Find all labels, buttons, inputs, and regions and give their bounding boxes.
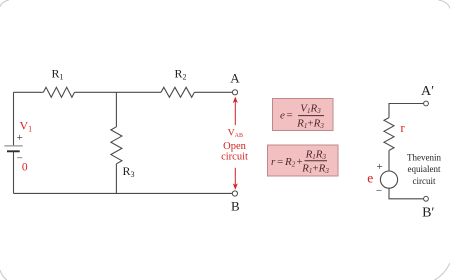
- wire left: battery to bottom: [13, 152, 15, 194]
- svg-text:=: =: [287, 110, 293, 122]
- svg-text:R1: R1: [52, 67, 64, 82]
- annotation VAB arrow up: [233, 97, 238, 103]
- svg-text:A: A: [230, 71, 240, 86]
- equation box e: [273, 99, 334, 131]
- wire top: R2 to node A: [194, 91, 232, 93]
- svg-text:A′: A′: [421, 84, 434, 99]
- battery V1 short plate: [7, 150, 20, 152]
- resistor R1: [43, 87, 74, 97]
- svg-text:e: e: [280, 110, 285, 122]
- svg-text:Open: Open: [223, 141, 246, 152]
- wire thevenin top: [389, 104, 424, 118]
- svg-text:+: +: [376, 161, 382, 173]
- svg-text:B′: B′: [422, 205, 434, 220]
- annotation VAB arrow down: [234, 168, 236, 185]
- node B' terminal: [424, 196, 429, 201]
- svg-text:−: −: [376, 185, 382, 197]
- svg-text:+: +: [17, 132, 23, 144]
- svg-text:R1+R3: R1+R3: [301, 163, 329, 176]
- svg-text:circuit: circuit: [413, 176, 436, 186]
- resistor r: [384, 118, 394, 151]
- svg-text:e: e: [367, 171, 373, 186]
- wire top: R1 to R2: [75, 91, 162, 93]
- wire left: top to battery: [13, 92, 15, 145]
- battery V1 long plate: [4, 145, 22, 147]
- source e circle: [380, 171, 397, 188]
- svg-text:equialent: equialent: [408, 164, 441, 174]
- wire top: battery to R1: [14, 91, 44, 93]
- svg-text:r: r: [400, 120, 405, 135]
- wire thevenin bottom: [389, 188, 424, 199]
- wire bottom: [14, 192, 233, 194]
- resistor R3: [111, 127, 122, 164]
- resistor R2: [161, 87, 194, 97]
- svg-text:=: =: [277, 156, 283, 168]
- svg-text:VAB: VAB: [228, 128, 243, 139]
- svg-text:0: 0: [22, 161, 28, 173]
- wire middle junction to R3: [115, 92, 117, 127]
- node A' terminal: [424, 101, 429, 106]
- node B terminal: [232, 191, 237, 196]
- svg-text:r: r: [271, 156, 276, 168]
- svg-text:B: B: [231, 199, 240, 214]
- node A terminal: [232, 90, 237, 95]
- svg-text:circuit: circuit: [221, 151, 248, 162]
- svg-text:R2: R2: [175, 67, 187, 82]
- svg-text:R3: R3: [123, 164, 135, 179]
- wire r to source: [388, 150, 390, 171]
- wire R3 to bottom: [115, 164, 117, 194]
- equation box r: [268, 145, 339, 176]
- svg-text:R1+R3: R1+R3: [296, 118, 324, 131]
- svg-text:Thevenin: Thevenin: [407, 153, 441, 163]
